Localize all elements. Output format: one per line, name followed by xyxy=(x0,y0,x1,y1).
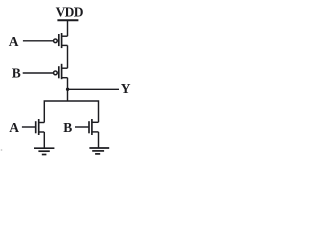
svg-text:B: B xyxy=(63,120,72,135)
svg-text:A: A xyxy=(9,34,19,49)
wire B to NMOS M4 gate xyxy=(75,126,88,128)
wire M4 source to ground xyxy=(98,132,100,148)
wire M2 source down to output node xyxy=(67,78,69,101)
scan speck xyxy=(1,149,3,151)
node Y junction dot xyxy=(66,88,69,91)
wire M3 source to ground xyxy=(43,132,45,148)
wire output node to Y xyxy=(68,88,120,90)
svg-text:A: A xyxy=(9,120,19,135)
ground (right) xyxy=(89,148,109,154)
transistor M2 (PMOS, input B) xyxy=(54,64,68,79)
wire B to PMOS M2 gate xyxy=(23,72,54,74)
svg-text:Y: Y xyxy=(121,81,131,96)
transistor M3 (NMOS, input A) xyxy=(36,119,45,135)
svg-text:B: B xyxy=(12,65,21,80)
ground (left) xyxy=(34,148,54,154)
wire A to PMOS M1 gate xyxy=(23,40,53,42)
transistor M4 (NMOS, input B) xyxy=(89,119,99,135)
svg-text:VDD: VDD xyxy=(56,5,84,20)
wire M1 source to M2 drain xyxy=(67,45,69,68)
wire VDD stem xyxy=(67,20,69,36)
transistor M1 (PMOS, input A) xyxy=(54,33,68,48)
VDD rail xyxy=(57,19,78,21)
wire A to NMOS M3 gate xyxy=(22,126,35,128)
wire NMOS drain rail xyxy=(44,101,98,123)
